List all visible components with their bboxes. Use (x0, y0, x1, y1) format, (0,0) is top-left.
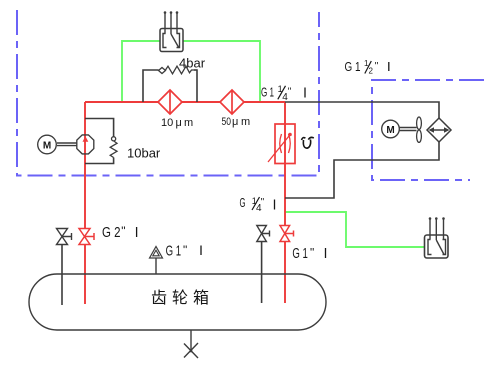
wire: black relief-valve loop around pump (85, 119, 114, 164)
breather / air filter on tank (150, 247, 163, 275)
wire: red pump riser / suction line (left) (84, 102, 86, 304)
svg-text:": " (310, 246, 314, 260)
svg-text:2: 2 (369, 67, 374, 76)
svg-text:M: M (386, 125, 394, 136)
svg-text:G 1: G 1 (345, 59, 361, 74)
svg-text:G 1: G 1 (166, 243, 182, 260)
relief valve spring 10bar (112, 137, 116, 141)
fan propeller (417, 117, 422, 142)
svg-text:m: m (184, 117, 193, 129)
drain line with plug (X) (184, 330, 198, 358)
svg-text:": " (183, 243, 187, 257)
label: G 1 1/2" | (345, 59, 389, 76)
label: G 1" | (return valve) (292, 245, 325, 262)
svg-text:M: M (43, 141, 51, 152)
gearbox tank (oil reservoir) (29, 274, 326, 330)
motor-pump shaft coupling (57, 143, 77, 146)
temperature switch S2 (bottom right) (425, 217, 449, 258)
label: 50 um (222, 116, 251, 128)
label: G 2" | (102, 224, 137, 241)
temperature symbol (mho glyph) next to TV1 (302, 137, 314, 148)
gate valve V3 (black, G1 drain right) (257, 226, 270, 242)
svg-text:": " (261, 197, 265, 208)
wire: black cooler loop (285, 102, 439, 198)
svg-text:G 2: G 2 (102, 224, 121, 241)
label: G 1" | (breather) (166, 243, 201, 260)
electric motor M1 (38, 135, 57, 154)
label: 10 um (161, 117, 193, 129)
gate valve V4 (red, G1 return) (280, 226, 294, 242)
wire: green signal line to temperature switch (285, 212, 424, 247)
svg-text:": " (288, 87, 292, 98)
svg-text:G 1: G 1 (292, 245, 308, 262)
wire: red return riser (right) (284, 102, 286, 303)
bypass check valve + spring 4bar (159, 66, 198, 74)
svg-text:": " (375, 61, 379, 72)
svg-text:": " (121, 224, 125, 238)
thermostatic valve TV1 (268, 124, 295, 164)
wire: black filter bypass loop (143, 70, 197, 102)
svg-text:10: 10 (161, 117, 173, 129)
pump P1 (77, 135, 94, 154)
filter F2 50um (220, 90, 244, 114)
enclosure boundary box B1 (pump unit, blue dash-dot) (17, 10, 319, 176)
gate valve V1 (black, G2 drain) (57, 229, 72, 245)
wire: V3 down-pipe into tank (261, 242, 263, 304)
air cooler / heat exchanger HE1 (427, 118, 451, 142)
label: G 1 1/4" | (261, 84, 305, 103)
svg-text:μ: μ (176, 117, 182, 129)
svg-text:m: m (241, 116, 250, 128)
fan motor M2 (382, 120, 400, 138)
svg-text:50: 50 (222, 116, 232, 128)
wire: red main pressure line (85, 101, 285, 103)
fan shaft coupling (400, 128, 417, 131)
svg-text:4bar: 4bar (179, 56, 206, 71)
wire: V1 down-pipe into tank (61, 245, 63, 306)
filter F1 10um (158, 90, 182, 114)
enclosure boundary box B2 (cooler unit, blue dash-dot) (372, 80, 484, 180)
svg-text:G 1: G 1 (261, 85, 274, 100)
svg-text:G: G (240, 195, 246, 210)
wire: green signal loop to pressure switch (122, 41, 260, 102)
label: G 1/4" | (240, 195, 275, 214)
svg-text:μ: μ (232, 116, 238, 128)
pressure switch S1 (top) (160, 11, 183, 51)
svg-text:齿轮箱: 齿轮箱 (151, 289, 214, 307)
gate valve V2 (red, G2 suction) (79, 229, 94, 245)
svg-text:10bar: 10bar (127, 146, 161, 161)
